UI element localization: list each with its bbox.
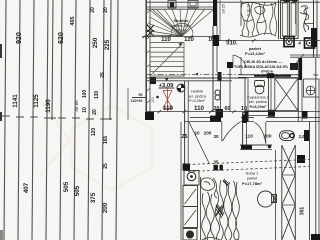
bedroom chain y41	[217, 39, 320, 42]
X-brace wall	[276, 145, 296, 240]
svg-text:305: 305	[273, 195, 278, 203]
door 2	[255, 122, 266, 144]
svg-text:110: 110	[163, 105, 174, 112]
shower X	[275, 78, 298, 110]
squiggle notes right	[300, 6, 309, 32]
right stair wall	[213, 0, 241, 118]
wardrobe column	[183, 186, 198, 228]
svg-text:10: 10	[82, 107, 88, 113]
dashed rows	[188, 160, 309, 172]
dash-dot section line	[146, 74, 300, 76]
top right walls	[296, 0, 317, 57]
top small boxes	[168, 1, 176, 9]
radiator oval	[280, 131, 295, 141]
svg-text:375: 375	[90, 192, 97, 203]
bathroom bottom wall	[245, 110, 275, 112]
square-circle symbols	[284, 37, 315, 48]
svg-text:620: 620	[58, 32, 65, 44]
svg-text:P=17,78m²: P=17,78m²	[242, 181, 263, 186]
svg-text:CELIK 2D d=10mm —: CELIK 2D d=10mm —	[244, 60, 282, 64]
svg-text:16 kom: 16 kom	[176, 29, 187, 33]
svg-text:TOPLINSKA IZOLACIJA DA 5%: TOPLINSKA IZOLACIJA DA 5%	[234, 65, 289, 69]
stair left wall	[145, 0, 156, 120]
svg-text:100: 100	[82, 90, 88, 99]
watermark	[40, 100, 152, 190]
diagonal in room	[189, 122, 210, 164]
bathroom right wall	[298, 58, 302, 80]
bed bottom	[201, 177, 240, 240]
toilet	[255, 81, 265, 94]
svg-text:465: 465	[70, 16, 76, 25]
svg-text:ker. pločice: ker. pločice	[249, 100, 267, 104]
svg-text:100: 100	[151, 97, 155, 103]
right double walls bedroom	[309, 122, 311, 240]
svg-text:10: 10	[194, 131, 200, 136]
top wall line	[147, 1, 320, 3]
spiral symbol	[215, 90, 220, 100]
svg-text:20: 20	[214, 106, 220, 112]
svg-text:zid 25: zid 25	[222, 4, 226, 14]
bathroom left wall	[244, 78, 246, 122]
svg-text:301: 301	[300, 207, 306, 216]
red bowtie	[163, 88, 172, 111]
svg-text:200: 200	[102, 202, 109, 213]
hall top door arc	[233, 55, 246, 67]
scan edge artifacts	[0, 44, 3, 240]
svg-text:1125: 1125	[33, 94, 40, 108]
svg-text:Kupaonica 2: Kupaonica 2	[247, 95, 269, 100]
rotated dimension labels	[12, 7, 146, 213]
svg-text:25: 25	[100, 72, 106, 78]
bedroom top wall	[184, 118, 320, 122]
svg-text:P=13,12m²: P=13,12m²	[245, 51, 266, 56]
svg-text:120: 120	[91, 128, 97, 137]
svg-text:parket: parket	[247, 177, 258, 181]
bathroom top wall	[238, 74, 298, 76]
svg-text:4: 4	[298, 41, 301, 46]
lower stair flight	[150, 42, 184, 77]
duvet squiggles top bed	[240, 2, 277, 37]
svg-text:505: 505	[74, 185, 81, 196]
dimension extension lines	[4, 0, 118, 240]
svg-text:d=3cm: d=3cm	[261, 69, 274, 73]
svg-text:20: 20	[90, 7, 96, 13]
circle survey point	[177, 84, 185, 92]
svg-text:310.: 310.	[226, 41, 238, 47]
bathroom mid wall	[267, 78, 269, 111]
door 1	[222, 122, 241, 142]
svg-text:P=5,20m²: P=5,20m²	[250, 105, 268, 109]
svg-text:90: 90	[139, 93, 143, 97]
svg-text:407: 407	[23, 182, 30, 193]
svg-text:Hodnik: Hodnik	[191, 89, 203, 94]
svg-text:250: 250	[92, 37, 99, 48]
svg-text:Soba 1: Soba 1	[246, 171, 259, 176]
landing edge double line	[146, 6, 216, 8]
stair chain line	[142, 35, 216, 38]
svg-text:120+20: 120+20	[130, 99, 142, 103]
svg-text:25: 25	[103, 163, 109, 169]
svg-text:130: 130	[94, 91, 100, 100]
svg-text:200: 200	[204, 131, 212, 136]
round table	[258, 191, 274, 207]
svg-text:keračke ploč.: keračke ploč.	[171, 24, 191, 28]
nightstand bottom	[183, 229, 197, 240]
svg-text:25: 25	[182, 134, 188, 140]
wall below door2	[240, 144, 272, 146]
level marker +3.09	[165, 78, 169, 82]
svg-text:225: 225	[104, 39, 111, 50]
wall between doors	[242, 112, 244, 148]
svg-text:P=4,28m²: P=4,28m²	[189, 99, 205, 103]
svg-text:Stubište: Stubište	[174, 19, 189, 23]
hallway top wall	[146, 77, 247, 79]
stair fan	[150, 9, 213, 36]
bed frame top-right	[279, 0, 299, 39]
svg-text:110: 110	[194, 105, 205, 112]
svg-text:165: 165	[103, 136, 109, 145]
wall below stairs	[184, 81, 186, 170]
svg-text:35: 35	[214, 160, 219, 165]
svg-text:20: 20	[103, 7, 109, 13]
svg-text:920: 920	[16, 32, 23, 44]
right small room with basin	[304, 79, 320, 97]
svg-text:ker. pločica: ker. pločica	[188, 94, 206, 98]
hall chain line	[146, 110, 320, 113]
svg-text:110: 110	[184, 37, 194, 43]
svg-text:20: 20	[213, 134, 219, 139]
lines below chain	[290, 54, 320, 56]
svg-text:20: 20	[92, 109, 98, 115]
svg-text:505: 505	[63, 181, 70, 192]
dark patch on blanket	[216, 179, 229, 218]
svg-text:45 60: 45 60	[74, 100, 79, 112]
svg-text:1190: 1190	[45, 99, 52, 113]
svg-text:60: 60	[225, 106, 231, 112]
nightstand top	[184, 171, 199, 186]
svg-text:1141: 1141	[12, 94, 19, 108]
dimension tick cluster mid	[2, 116, 112, 119]
svg-text:2,0: 2,0	[299, 134, 305, 139]
